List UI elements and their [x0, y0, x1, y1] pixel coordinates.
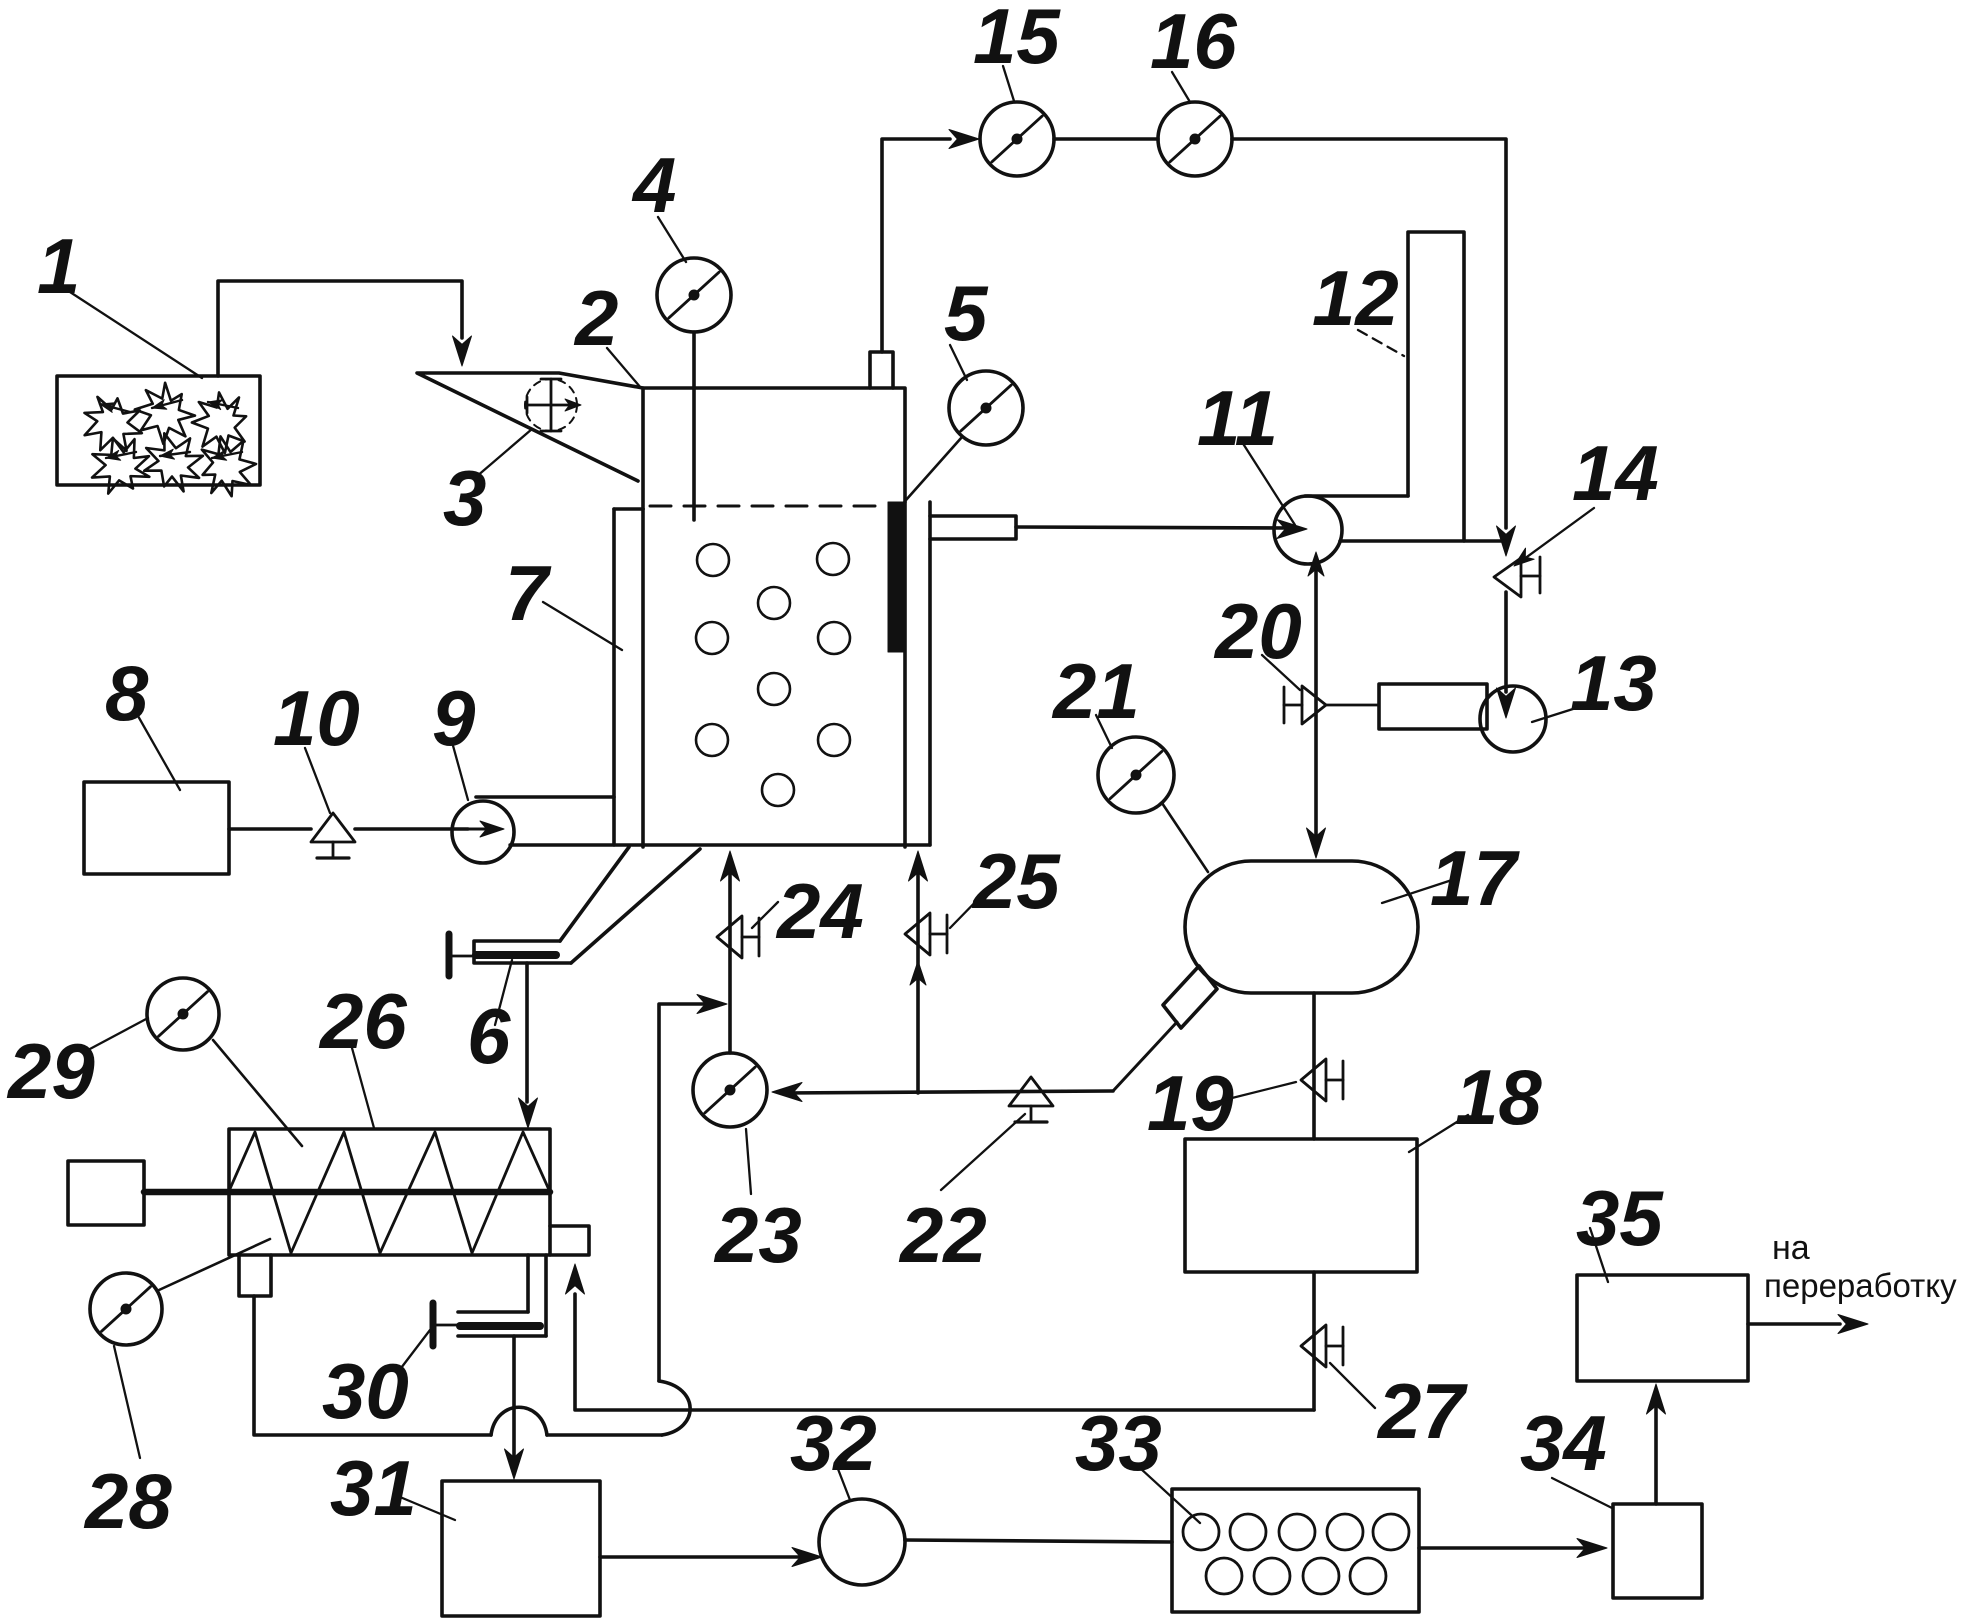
wire fan11 to tank 17 — [1314, 568, 1318, 838]
svg-text:26: 26 — [318, 977, 407, 1065]
valve 20 — [1284, 686, 1379, 724]
svg-text:21: 21 — [1051, 647, 1140, 735]
label 21 — [1051, 647, 1140, 748]
label 23 — [713, 1129, 802, 1279]
label 11 — [1197, 374, 1295, 525]
svg-text:24: 24 — [775, 867, 864, 955]
svg-text:15: 15 — [973, 0, 1061, 80]
riser line 24 — [728, 862, 732, 1053]
wire nozzle to gauge 15 — [882, 139, 950, 352]
valve 22 vent — [1009, 1077, 1053, 1122]
svg-text:32: 32 — [790, 1399, 877, 1487]
label 6 — [467, 960, 512, 1080]
label 9 — [432, 674, 476, 800]
arrow into box 34 — [1577, 1539, 1607, 1558]
valve 27 — [1301, 1325, 1343, 1367]
svg-text:29: 29 — [6, 1027, 95, 1115]
wire 15-16 — [1054, 137, 1158, 141]
valve 14 — [1494, 557, 1540, 597]
arrow into riser 24 — [697, 995, 727, 1014]
box 33 moulds — [1172, 1489, 1419, 1612]
svg-text:переработку: переработку — [1764, 1267, 1957, 1304]
label 32 — [790, 1399, 877, 1500]
pipes conveyor to heater 30 — [528, 1255, 546, 1336]
svg-text:11: 11 — [1197, 374, 1278, 462]
pump 9 discharge upper — [476, 795, 614, 799]
wire 16 down to valve 14 — [1232, 139, 1506, 528]
screw flights — [229, 1132, 550, 1253]
label 31 — [330, 1444, 455, 1532]
heater 6 — [449, 934, 571, 976]
gauge 28 — [90, 1273, 162, 1345]
return branch to riser 24 — [659, 1004, 712, 1381]
wire 18 down — [1312, 1272, 1316, 1410]
arrow into pump 32 — [792, 1548, 822, 1567]
vessel 7 jacketed body — [510, 502, 930, 847]
box 18 receiver — [1185, 1139, 1417, 1272]
line nozzle to sample line — [1113, 1022, 1177, 1091]
conveyor support leg — [239, 1255, 271, 1296]
gauge 29 connector — [213, 1040, 302, 1146]
label 26 — [318, 977, 407, 1128]
standpipe 12 — [1408, 232, 1464, 541]
box 34 — [1613, 1504, 1702, 1598]
riser line 25 — [916, 862, 920, 1093]
crossover bridge right — [659, 1381, 690, 1435]
arrow to processing — [1838, 1315, 1868, 1334]
drain line continues — [547, 1433, 662, 1437]
gauge 5 — [949, 371, 1023, 445]
label 14 — [1572, 429, 1659, 517]
gauge 5 connector — [906, 437, 962, 500]
vessel 2 upper section — [643, 388, 905, 509]
wire out of box 35 — [1748, 1322, 1840, 1326]
tank 17 drain nozzle — [1163, 966, 1217, 1028]
crossover bridge left — [491, 1407, 547, 1435]
arrow into gauge 23 — [772, 1083, 802, 1102]
box 1 scrap feed bin — [57, 376, 260, 485]
svg-text:34: 34 — [1520, 1399, 1607, 1487]
label 20 — [1213, 587, 1302, 690]
wire 32 to box 33 — [905, 1540, 1172, 1542]
wire vessel to fan 11 — [1016, 527, 1290, 528]
conveyor shaft — [144, 1189, 550, 1196]
wire 8 to valve 10 — [229, 827, 311, 831]
scrap material in box 1 — [79, 375, 264, 504]
chute 3 — [417, 373, 643, 481]
valve 24 — [717, 916, 759, 958]
arrow into vessel left — [721, 851, 740, 881]
wire valve10 to pump 9 — [355, 827, 468, 831]
svg-text:на: на — [1772, 1229, 1810, 1267]
label 1 — [37, 222, 202, 378]
pump 9 — [452, 801, 514, 863]
svg-text:13: 13 — [1570, 639, 1657, 727]
svg-text:35: 35 — [1576, 1174, 1664, 1262]
svg-text:1: 1 — [37, 222, 80, 310]
wire 34 to box 35 — [1654, 1408, 1658, 1504]
svg-text:18: 18 — [1455, 1053, 1542, 1141]
gauge 29 — [147, 978, 219, 1050]
mould cavities — [1183, 1514, 1409, 1594]
box 31 collector — [442, 1481, 600, 1616]
svg-text:17: 17 — [1430, 834, 1520, 922]
gauge 4 — [657, 258, 731, 332]
arrow into conveyor outlet — [566, 1264, 585, 1294]
text na pererabotku — [1764, 1229, 1957, 1304]
conveyor motor — [68, 1161, 144, 1225]
agitator symbol in chute — [525, 379, 581, 431]
label 35 — [1576, 1174, 1664, 1282]
bottom return line — [575, 1294, 1314, 1410]
svg-text:20: 20 — [1213, 587, 1302, 675]
svg-text:30: 30 — [322, 1347, 409, 1435]
gauge 15 — [980, 102, 1054, 176]
label 22 — [898, 1114, 1025, 1279]
heater 30 — [433, 1303, 546, 1346]
label 5 — [944, 269, 989, 380]
svg-text:16: 16 — [1150, 0, 1237, 85]
svg-text:27: 27 — [1376, 1367, 1468, 1455]
sample line to gauge 23 — [783, 1091, 1113, 1093]
gauge 4 probe line — [692, 332, 696, 520]
svg-text:3: 3 — [443, 454, 486, 542]
svg-text:19: 19 — [1147, 1059, 1234, 1147]
tank 17 — [1185, 861, 1418, 993]
label 12 leader — [1358, 330, 1404, 356]
gauge 21 — [1098, 737, 1174, 813]
label 10 — [273, 674, 360, 813]
pump 32 — [819, 1499, 905, 1585]
vessel top nozzle — [870, 352, 893, 388]
defs — [0, 0, 1, 1]
drain line from support — [254, 1296, 491, 1435]
svg-text:22: 22 — [898, 1191, 987, 1279]
arrow into fan 11 — [1277, 520, 1307, 539]
label 19 — [1147, 1059, 1296, 1147]
label 34 — [1520, 1399, 1612, 1508]
label 3 — [443, 429, 532, 542]
label 30 — [322, 1330, 430, 1435]
gauge 28 connector — [159, 1239, 270, 1290]
label 7 — [505, 549, 622, 650]
fan 11 — [1274, 496, 1342, 564]
label 27 — [1330, 1363, 1468, 1455]
label 12 — [1312, 254, 1399, 342]
svg-text:25: 25 — [971, 837, 1061, 925]
gauge 23 — [693, 1053, 767, 1127]
arrow into tank 17 — [1307, 828, 1326, 858]
wire 31 to pump 32 — [600, 1555, 800, 1559]
gauge 16 — [1158, 102, 1232, 176]
discharge chute to heater 6 — [560, 847, 700, 963]
arrow into gauge 15 — [949, 130, 979, 149]
fan 11 outlet duct — [1305, 496, 1505, 541]
gauge 21 connector — [1162, 803, 1208, 872]
arrow below valve 25 — [910, 961, 926, 985]
label 16 — [1150, 0, 1237, 102]
wire from box 1 to chute — [218, 281, 462, 376]
svg-text:28: 28 — [83, 1457, 172, 1545]
liquid level dashed line — [650, 505, 884, 508]
blower 13 — [1379, 684, 1546, 752]
label 17 — [1382, 834, 1520, 922]
valve 10 — [311, 813, 355, 858]
svg-text:31: 31 — [330, 1444, 417, 1532]
valve 19 — [1301, 1059, 1343, 1101]
box 35 product station — [1577, 1275, 1748, 1381]
label 29 — [6, 1018, 148, 1115]
arrow into conveyor 26 — [519, 1098, 538, 1128]
pipe heater 6 to conveyor — [525, 963, 529, 1102]
svg-text:23: 23 — [713, 1191, 802, 1279]
svg-text:10: 10 — [273, 674, 360, 762]
svg-text:14: 14 — [1572, 429, 1659, 517]
arrow up into fan 11 — [1308, 552, 1324, 576]
label 24 — [752, 867, 864, 955]
label 33 — [1075, 1399, 1200, 1523]
label 15 — [973, 0, 1061, 101]
wire valve 14 to blower 13 — [1504, 592, 1508, 692]
drain heater 30 to box 31 — [512, 1336, 516, 1462]
arrow above valve 14 — [1497, 526, 1516, 556]
conveyor outlet box — [550, 1226, 589, 1255]
valve 25 — [905, 913, 947, 955]
box 8 reagent tank — [84, 782, 229, 874]
label 18 — [1409, 1053, 1542, 1152]
wire 33 to box 34 — [1419, 1546, 1585, 1550]
label 4 — [631, 141, 686, 262]
label 8 — [105, 649, 180, 790]
arrow into box 35 — [1647, 1384, 1666, 1414]
bubbles in vessel — [696, 543, 850, 806]
wire tank 17 to box 18 — [1312, 993, 1316, 1139]
arrow into vessel right — [909, 851, 928, 881]
arrow into box 31 — [505, 1449, 524, 1479]
arrow into chute 3 — [453, 336, 472, 366]
label 2 — [573, 274, 641, 388]
conveyor 26 housing — [229, 1129, 550, 1255]
svg-text:33: 33 — [1075, 1399, 1162, 1487]
svg-text:4: 4 — [631, 141, 676, 229]
heating element black bar — [888, 502, 905, 652]
arrow into blower 13 — [1497, 688, 1516, 718]
label 25 — [950, 837, 1061, 928]
svg-text:12: 12 — [1312, 254, 1399, 342]
label 28 — [83, 1346, 172, 1545]
svg-text:5: 5 — [944, 269, 989, 357]
label 13 — [1532, 639, 1657, 727]
vessel side outlet nozzle — [930, 516, 1016, 539]
svg-text:6: 6 — [467, 992, 511, 1080]
svg-text:2: 2 — [573, 274, 618, 362]
label 14 leader — [1514, 508, 1594, 566]
svg-text:7: 7 — [505, 549, 552, 637]
